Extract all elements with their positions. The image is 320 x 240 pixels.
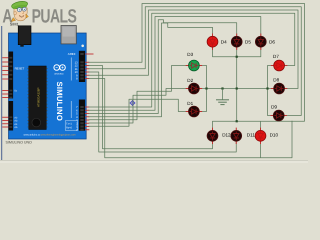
svg-text:D11: D11	[247, 133, 256, 138]
LED D5 body	[231, 36, 242, 47]
svg-text:D1: D1	[187, 101, 193, 106]
LED D9 pin stubs	[271, 115, 275, 117]
Appuals mascot head	[11, 0, 28, 21]
wire pin10 to D11	[89, 72, 236, 152]
digital header 13-8	[79, 51, 85, 82]
middle horizontal net	[199, 88, 273, 90]
svg-text:RESET: RESET	[15, 67, 25, 71]
sheet border left edge	[1, 26, 3, 161]
svg-text:D9: D9	[271, 104, 277, 109]
svg-text:Tx>1: Tx>1	[66, 123, 72, 126]
origin marker	[130, 101, 135, 106]
LED D3 pin stubs	[186, 65, 190, 67]
svg-text:D2: D2	[187, 78, 193, 83]
svg-text:www.theengineeringprojects.com: www.theengineeringprojects.com	[41, 134, 76, 137]
LED D8 body	[274, 83, 285, 94]
wire pin1 to D1	[89, 99, 188, 126]
LED D12 body	[207, 130, 218, 141]
svg-text:D7: D7	[273, 54, 279, 59]
svg-text:www.arduino.cc: www.arduino.cc	[24, 134, 42, 137]
DC power jack	[18, 26, 31, 45]
wire pin2 to D2	[89, 89, 188, 124]
LED D5 pin stubs	[236, 34, 238, 38]
wire pin11 to D9	[89, 7, 301, 116]
LED D6 pin stubs	[260, 34, 262, 38]
svg-text:D6: D6	[269, 39, 275, 44]
wire pin8 to D10 and bus return	[89, 79, 292, 158]
wire pin6 to D6	[89, 17, 261, 111]
wire pin5 to D5	[89, 20, 237, 114]
wire pin12 to D12	[89, 66, 213, 149]
svg-text:Rx<0: Rx<0	[66, 127, 73, 130]
LED D10 pin stubs	[260, 128, 262, 132]
LED D4 body	[207, 36, 218, 47]
svg-text:D5: D5	[245, 39, 251, 44]
svg-text:PUALS: PUALS	[32, 7, 77, 28]
svg-text:D12: D12	[222, 133, 231, 138]
svg-text:SIMULINO: SIMULINO	[55, 82, 64, 122]
svg-text:D4: D4	[221, 39, 227, 44]
svg-text:SIM1: SIM1	[10, 22, 19, 26]
wire pin13 to cathode return	[89, 4, 305, 122]
Appuals logo text A	[2, 7, 77, 28]
wire pin9 to D8	[89, 10, 298, 89]
junction dots	[205, 87, 207, 89]
LED D2 body	[189, 83, 200, 94]
center vertical net	[236, 57, 238, 122]
svg-text:ARDUINO: ARDUINO	[54, 72, 64, 75]
node D7/D9 join	[268, 66, 274, 116]
sheet border bottom edge	[0, 159, 308, 161]
LED D8 pin stubs	[271, 88, 275, 90]
svg-text:D3: D3	[187, 52, 193, 57]
LED D4 pin stubs	[212, 34, 214, 38]
wire pin4 to D4	[89, 23, 213, 117]
digital header 7-0	[79, 100, 85, 131]
LED D1 pin stubs	[186, 111, 190, 113]
LED D10 body	[255, 130, 266, 141]
wire pin3 to D3	[89, 66, 188, 120]
svg-text:AREF: AREF	[68, 52, 76, 56]
left pin stubs	[2, 57, 8, 59]
USB connector	[61, 26, 76, 44]
Arduino SIMULINO UNO board SIM1	[9, 26, 87, 140]
LED D1 body	[189, 106, 200, 117]
ATmega328 chip	[29, 66, 47, 130]
node D3/D1 join	[199, 66, 206, 112]
LED D6 body	[255, 36, 266, 47]
svg-text:ATMEGA328P: ATMEGA328P	[37, 88, 41, 107]
svg-text:SIMULINO UNO: SIMULINO UNO	[6, 141, 33, 145]
svg-text:D10: D10	[270, 133, 279, 138]
LED D11 body	[231, 130, 242, 141]
LED D3 body	[189, 60, 200, 71]
reset / power headers	[9, 52, 14, 99]
ground	[222, 89, 224, 100]
LED D2 pin stubs	[186, 88, 190, 90]
Arduino logo	[54, 65, 60, 71]
wire pin7 to D7	[89, 13, 295, 107]
LED D11 pin stubs	[235, 128, 237, 132]
LED D9 body	[273, 110, 284, 121]
LED D7 pin stubs	[271, 65, 275, 67]
bottom cathode bus	[213, 121, 293, 130]
LED D12 pin stubs	[212, 128, 214, 132]
LED D7 body	[274, 60, 285, 71]
svg-text:D8: D8	[273, 78, 279, 83]
right pin stubs	[85, 53, 93, 55]
top cathode bus	[213, 47, 261, 57]
